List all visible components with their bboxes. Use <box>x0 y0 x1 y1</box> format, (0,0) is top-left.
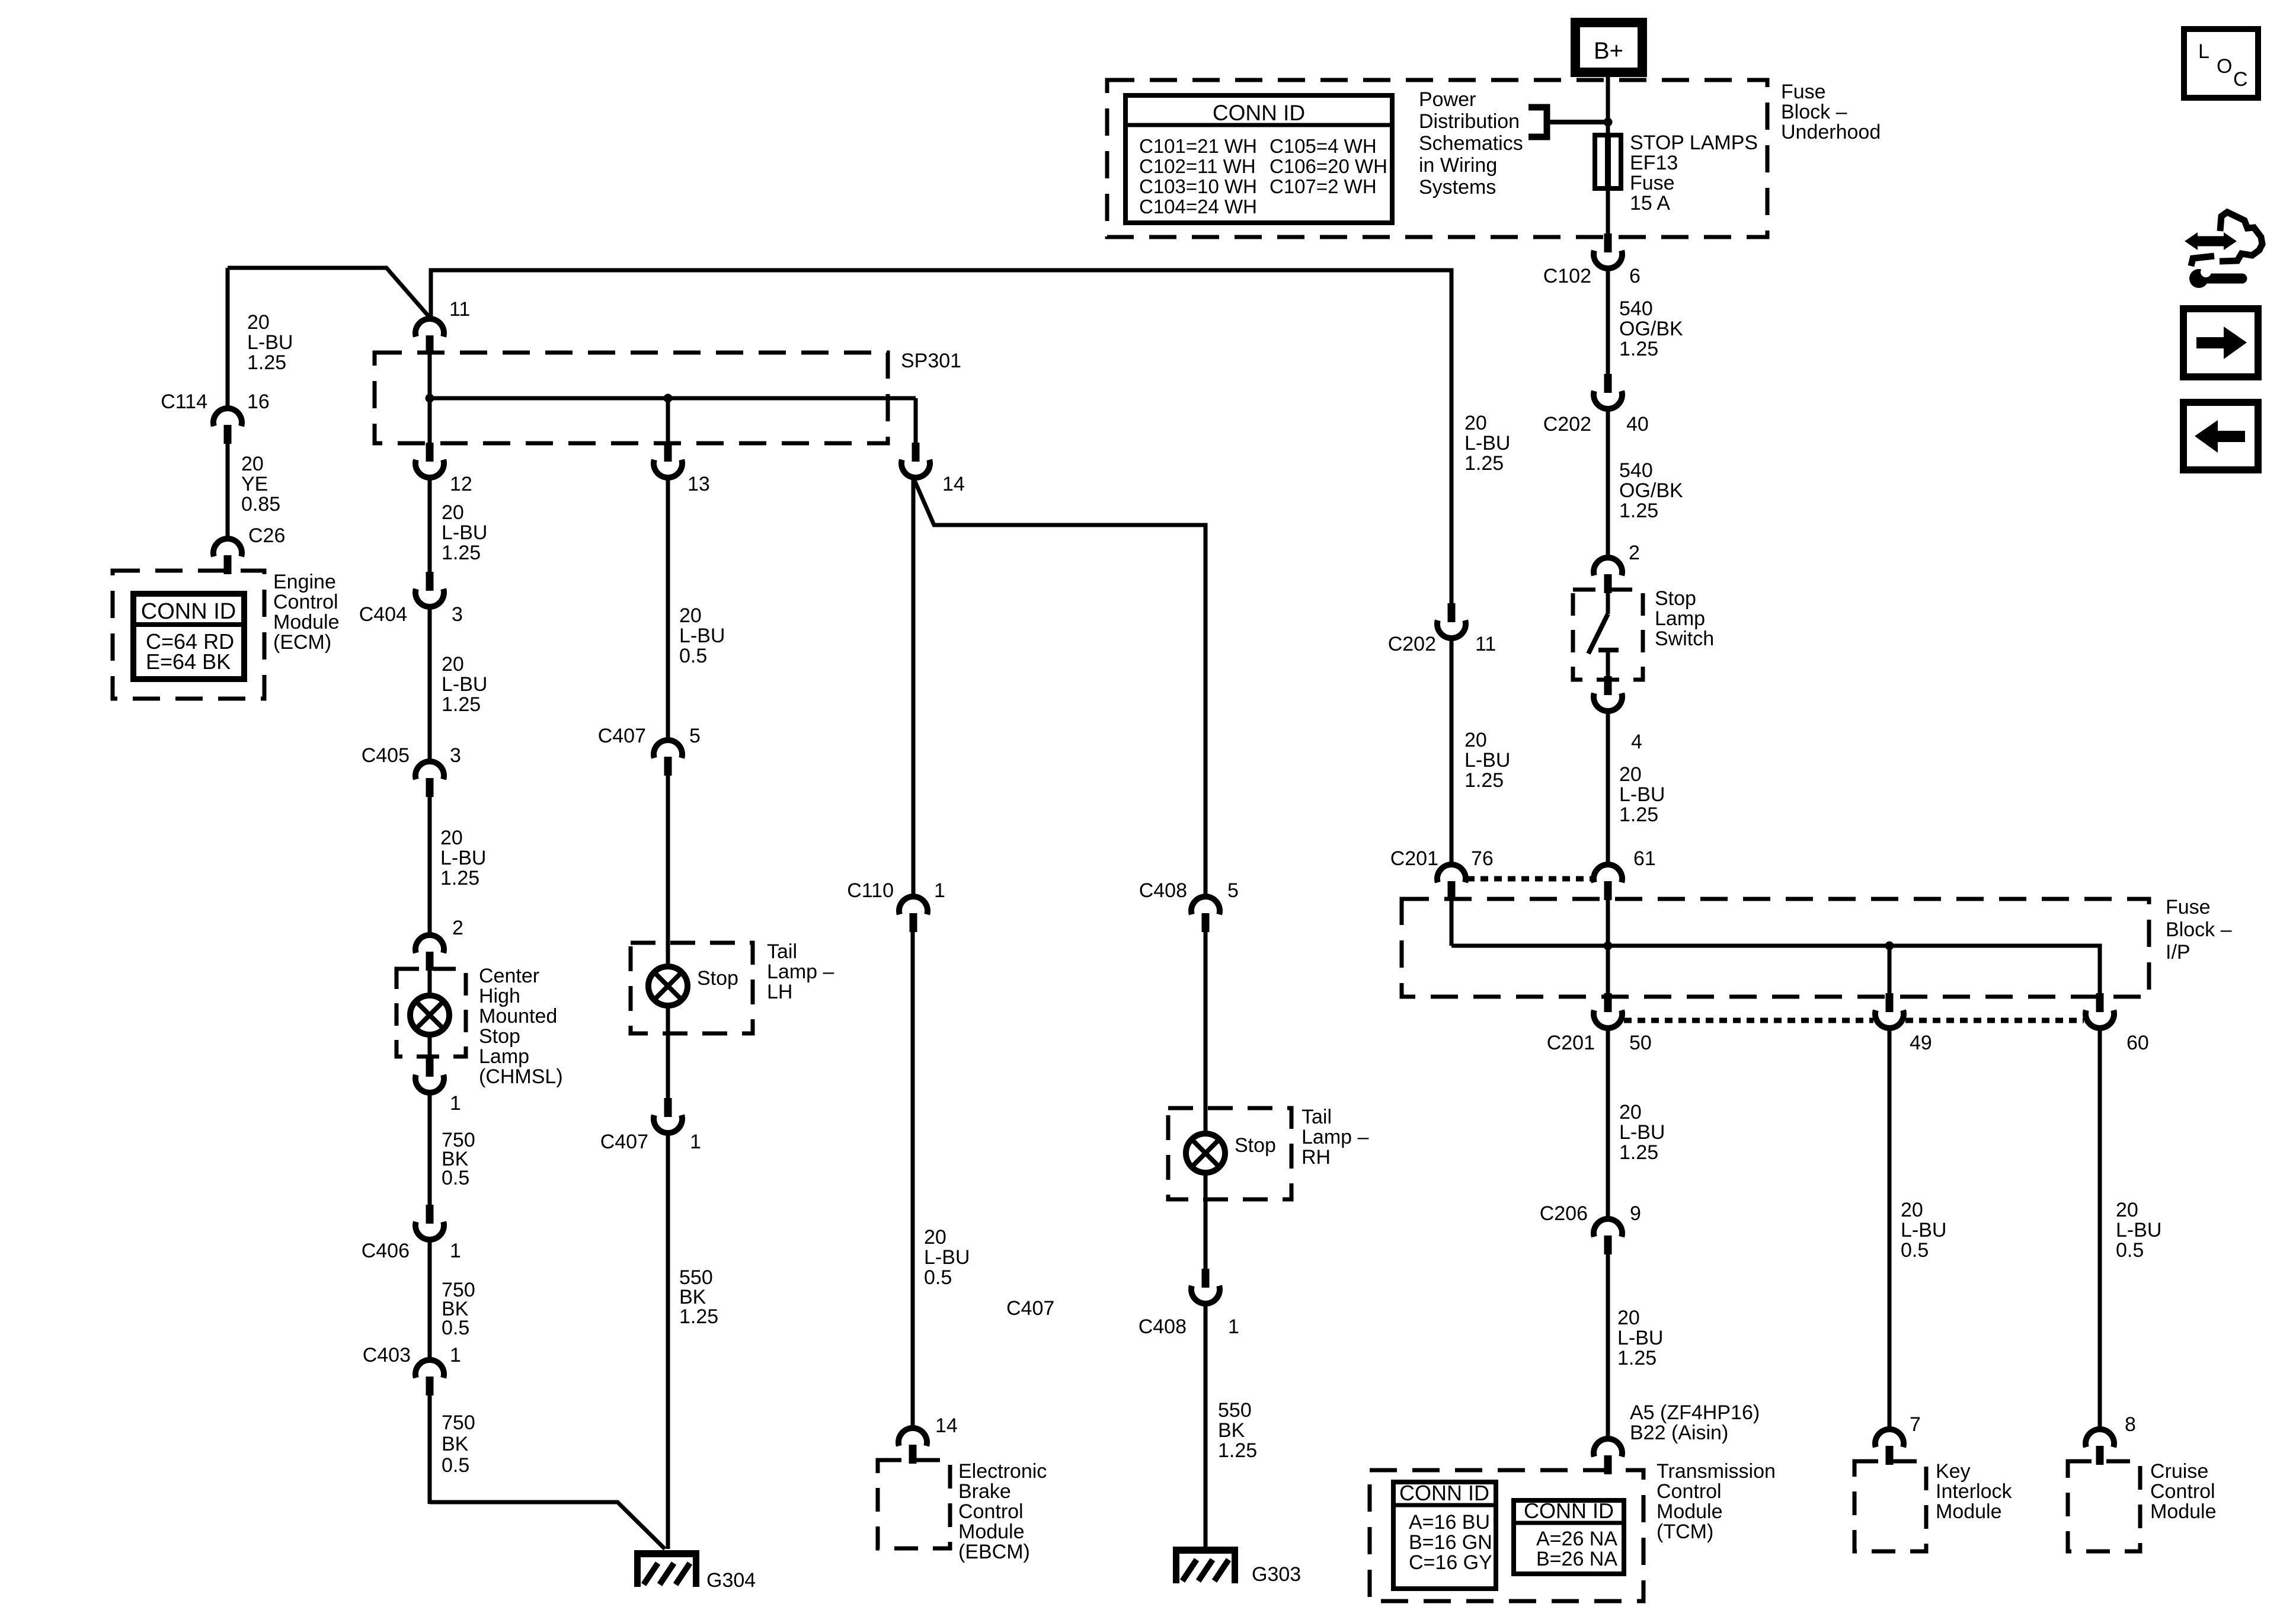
svg-text:L: L <box>2198 40 2209 63</box>
svg-text:3: 3 <box>450 744 461 767</box>
svg-text:20: 20 <box>241 453 264 475</box>
svg-text:1.25: 1.25 <box>1464 452 1504 475</box>
svg-text:550: 550 <box>1218 1399 1252 1422</box>
svg-text:L-BU: L-BU <box>440 847 486 869</box>
svg-text:C104=24 WH: C104=24 WH <box>1139 196 1257 217</box>
svg-text:C403: C403 <box>363 1344 411 1366</box>
svg-text:G304: G304 <box>706 1569 756 1592</box>
svg-text:C408: C408 <box>1139 879 1187 902</box>
svg-text:1.25: 1.25 <box>1218 1439 1257 1462</box>
svg-text:OG/BK: OG/BK <box>1619 318 1683 340</box>
svg-text:1.25: 1.25 <box>1617 1347 1657 1369</box>
svg-text:L-BU: L-BU <box>2116 1219 2161 1241</box>
svg-text:1: 1 <box>450 1092 461 1115</box>
svg-text:Tail: Tail <box>1302 1106 1332 1128</box>
svg-text:Brake: Brake <box>958 1480 1011 1503</box>
svg-text:0.5: 0.5 <box>442 1317 469 1339</box>
svg-text:1.25: 1.25 <box>1619 500 1658 522</box>
svg-text:C102=11 WH: C102=11 WH <box>1139 155 1256 177</box>
svg-text:(EBCM): (EBCM) <box>958 1541 1030 1563</box>
svg-text:1: 1 <box>450 1240 461 1262</box>
svg-text:C26: C26 <box>248 524 285 547</box>
svg-text:20: 20 <box>2116 1199 2138 1221</box>
svg-text:1.25: 1.25 <box>1619 804 1658 826</box>
svg-text:750: 750 <box>442 1411 475 1434</box>
svg-text:I/P: I/P <box>2166 941 2191 964</box>
svg-text:Lamp: Lamp <box>479 1045 529 1068</box>
svg-text:50: 50 <box>1629 1032 1652 1054</box>
svg-text:C105=4 WH: C105=4 WH <box>1269 135 1377 157</box>
svg-text:L-BU: L-BU <box>1619 783 1665 806</box>
svg-text:16: 16 <box>247 391 270 413</box>
svg-text:C408: C408 <box>1139 1315 1187 1338</box>
svg-text:Distribution: Distribution <box>1419 110 1520 133</box>
svg-text:60: 60 <box>2126 1032 2149 1054</box>
svg-text:Switch: Switch <box>1655 628 1714 650</box>
svg-text:4: 4 <box>1631 731 1642 753</box>
svg-text:Key: Key <box>1936 1460 1971 1483</box>
svg-text:14: 14 <box>935 1414 958 1437</box>
svg-text:YE: YE <box>241 473 268 495</box>
svg-text:EF13: EF13 <box>1630 152 1678 174</box>
svg-text:C103=10 WH: C103=10 WH <box>1139 175 1257 197</box>
svg-text:5: 5 <box>1227 879 1239 902</box>
svg-text:20: 20 <box>1619 1101 1642 1124</box>
svg-text:0.5: 0.5 <box>442 1167 469 1189</box>
svg-text:Module: Module <box>1657 1500 1723 1523</box>
svg-text:SP301: SP301 <box>901 350 961 372</box>
svg-text:(TCM): (TCM) <box>1657 1521 1713 1543</box>
svg-text:Lamp: Lamp <box>1655 607 1705 630</box>
svg-text:14: 14 <box>942 473 965 495</box>
svg-text:(ECM): (ECM) <box>273 631 331 654</box>
svg-text:Interlock: Interlock <box>1936 1480 2012 1503</box>
svg-text:Power: Power <box>1419 88 1476 111</box>
svg-text:Stop: Stop <box>479 1025 520 1048</box>
svg-text:C107=2 WH: C107=2 WH <box>1269 175 1377 197</box>
svg-text:O: O <box>2217 55 2232 78</box>
svg-text:L-BU: L-BU <box>1617 1327 1663 1349</box>
svg-text:Module: Module <box>2150 1500 2217 1523</box>
svg-text:1: 1 <box>1228 1315 1239 1338</box>
svg-text:61: 61 <box>1633 847 1656 870</box>
svg-text:20: 20 <box>1464 729 1487 751</box>
svg-text:C407: C407 <box>600 1131 648 1153</box>
svg-text:Fuse: Fuse <box>2166 896 2211 918</box>
svg-text:C405: C405 <box>362 744 410 767</box>
svg-text:9: 9 <box>1630 1202 1641 1225</box>
svg-text:C406: C406 <box>362 1240 410 1262</box>
svg-text:Control: Control <box>958 1500 1024 1523</box>
svg-text:1.25: 1.25 <box>247 351 286 374</box>
svg-text:L-BU: L-BU <box>442 521 487 544</box>
svg-text:C=16 GY: C=16 GY <box>1409 1551 1492 1574</box>
svg-text:RH: RH <box>1302 1146 1331 1169</box>
svg-text:1.25: 1.25 <box>679 1305 718 1328</box>
svg-text:5: 5 <box>689 725 701 747</box>
svg-text:1.25: 1.25 <box>1619 1141 1658 1164</box>
svg-text:1: 1 <box>934 879 945 902</box>
svg-text:7: 7 <box>1910 1413 1921 1436</box>
svg-text:8: 8 <box>2125 1413 2136 1436</box>
svg-text:15 A: 15 A <box>1630 192 1670 215</box>
svg-text:High: High <box>479 985 520 1007</box>
svg-text:BK: BK <box>442 1433 469 1455</box>
svg-text:20: 20 <box>247 311 270 334</box>
svg-text:A5 (ZF4HP16): A5 (ZF4HP16) <box>1630 1401 1760 1424</box>
svg-text:Center: Center <box>479 965 539 987</box>
svg-text:1.25: 1.25 <box>442 693 481 716</box>
svg-text:C114: C114 <box>161 391 207 413</box>
svg-text:1.25: 1.25 <box>1464 769 1504 792</box>
svg-text:in Wiring: in Wiring <box>1419 154 1497 177</box>
svg-text:C201: C201 <box>1390 847 1438 870</box>
svg-text:C101=21 WH: C101=21 WH <box>1139 135 1257 157</box>
svg-text:Control: Control <box>273 591 338 613</box>
svg-text:Module: Module <box>958 1521 1025 1543</box>
svg-text:Control: Control <box>2150 1480 2215 1503</box>
svg-text:11: 11 <box>1475 633 1496 655</box>
svg-text:Engine: Engine <box>273 571 336 593</box>
svg-text:Fuse: Fuse <box>1630 172 1675 194</box>
svg-text:49: 49 <box>1910 1032 1932 1054</box>
svg-text:1: 1 <box>450 1344 461 1366</box>
svg-text:C: C <box>2233 68 2248 91</box>
svg-text:Electronic: Electronic <box>958 1460 1047 1483</box>
svg-text:C102: C102 <box>1543 265 1591 287</box>
svg-text:Underhood: Underhood <box>1781 121 1881 143</box>
svg-text:(CHMSL): (CHMSL) <box>479 1065 563 1088</box>
svg-text:20: 20 <box>1901 1199 1923 1221</box>
svg-text:C110: C110 <box>847 879 894 902</box>
svg-text:B22 (Aisin): B22 (Aisin) <box>1630 1422 1728 1444</box>
svg-text:CONN ID: CONN ID <box>1399 1481 1489 1505</box>
svg-text:C202: C202 <box>1388 633 1436 655</box>
svg-text:B=16 GN: B=16 GN <box>1409 1531 1492 1554</box>
svg-text:G303: G303 <box>1252 1563 1301 1586</box>
svg-text:0.5: 0.5 <box>1901 1239 1929 1262</box>
svg-text:20: 20 <box>442 501 464 524</box>
svg-text:Stop: Stop <box>697 967 738 990</box>
svg-text:CONN ID: CONN ID <box>1524 1499 1614 1523</box>
svg-text:Schematics: Schematics <box>1419 132 1523 155</box>
svg-text:3: 3 <box>452 603 463 626</box>
svg-text:11: 11 <box>449 298 470 321</box>
svg-text:0.85: 0.85 <box>241 493 280 516</box>
svg-text:Module: Module <box>273 611 340 633</box>
svg-text:0.5: 0.5 <box>442 1454 469 1477</box>
svg-text:1: 1 <box>690 1131 701 1153</box>
svg-text:C206: C206 <box>1540 1202 1588 1225</box>
svg-text:76: 76 <box>1471 847 1494 870</box>
svg-text:CONN ID: CONN ID <box>1213 101 1305 125</box>
svg-text:1.25: 1.25 <box>440 867 479 889</box>
svg-text:20: 20 <box>1619 763 1642 786</box>
svg-text:Systems: Systems <box>1419 176 1496 199</box>
svg-text:LH: LH <box>767 981 792 1003</box>
svg-text:20: 20 <box>440 827 463 849</box>
svg-text:Block –: Block – <box>2166 918 2232 941</box>
svg-text:1.25: 1.25 <box>442 542 481 564</box>
svg-text:Block –: Block – <box>1781 101 1847 123</box>
svg-text:13: 13 <box>687 473 710 495</box>
svg-text:Control: Control <box>1657 1480 1722 1503</box>
svg-text:20: 20 <box>1464 412 1487 434</box>
svg-text:Transmission: Transmission <box>1657 1460 1776 1483</box>
svg-text:L-BU: L-BU <box>442 673 487 696</box>
svg-text:L-BU: L-BU <box>1619 1121 1665 1144</box>
svg-text:C407: C407 <box>1006 1297 1054 1320</box>
svg-text:C404: C404 <box>359 603 407 626</box>
svg-text:L-BU: L-BU <box>924 1246 970 1269</box>
svg-text:B+: B+ <box>1594 38 1623 64</box>
svg-text:Mounted: Mounted <box>479 1005 557 1028</box>
svg-text:BK: BK <box>1218 1419 1245 1442</box>
svg-text:12: 12 <box>450 473 472 495</box>
svg-text:Stop: Stop <box>1655 587 1696 610</box>
svg-text:STOP LAMPS: STOP LAMPS <box>1630 132 1758 154</box>
svg-text:CONN ID: CONN ID <box>141 599 236 624</box>
svg-text:C202: C202 <box>1543 413 1591 436</box>
svg-text:540: 540 <box>1619 459 1653 482</box>
svg-text:540: 540 <box>1619 297 1653 320</box>
svg-text:C106=20 WH: C106=20 WH <box>1269 155 1387 177</box>
svg-text:40: 40 <box>1626 413 1649 436</box>
svg-text:L-BU: L-BU <box>679 625 725 647</box>
svg-text:0.5: 0.5 <box>924 1266 952 1289</box>
svg-text:2: 2 <box>452 917 463 939</box>
svg-text:L-BU: L-BU <box>1464 432 1510 454</box>
svg-text:OG/BK: OG/BK <box>1619 479 1683 502</box>
svg-text:1.25: 1.25 <box>1619 338 1658 360</box>
svg-text:B=26 NA: B=26 NA <box>1536 1548 1617 1570</box>
svg-text:L-BU: L-BU <box>1901 1219 1946 1241</box>
svg-text:20: 20 <box>924 1226 946 1249</box>
svg-text:20: 20 <box>679 604 702 627</box>
svg-text:C407: C407 <box>598 725 646 747</box>
svg-text:A=26 NA: A=26 NA <box>1536 1528 1617 1550</box>
svg-text:Stop: Stop <box>1235 1134 1276 1157</box>
svg-text:20: 20 <box>1617 1307 1640 1329</box>
svg-text:6: 6 <box>1629 265 1641 287</box>
svg-text:Lamp –: Lamp – <box>767 961 834 983</box>
svg-text:0.5: 0.5 <box>2116 1239 2144 1262</box>
svg-text:A=16 BU: A=16 BU <box>1409 1511 1490 1534</box>
svg-text:L-BU: L-BU <box>1464 749 1510 772</box>
svg-text:0.5: 0.5 <box>679 645 707 667</box>
svg-text:E=64 BK: E=64 BK <box>146 649 231 674</box>
svg-text:Module: Module <box>1936 1500 2002 1523</box>
svg-text:L-BU: L-BU <box>247 331 293 354</box>
svg-text:2: 2 <box>1629 542 1640 564</box>
svg-text:C201: C201 <box>1547 1032 1595 1054</box>
svg-text:Tail: Tail <box>767 940 797 963</box>
svg-text:20: 20 <box>442 653 464 676</box>
svg-text:Cruise: Cruise <box>2150 1460 2208 1483</box>
svg-text:Lamp –: Lamp – <box>1302 1126 1368 1148</box>
svg-text:Fuse: Fuse <box>1781 81 1826 103</box>
